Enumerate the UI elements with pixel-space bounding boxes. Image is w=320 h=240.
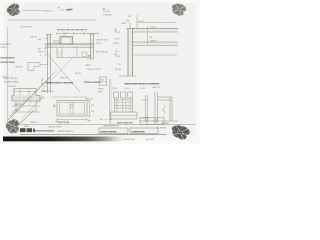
rebar B step lines — [158, 96, 173, 98]
small box right of table — [157, 117, 164, 124]
dimension line central — [57, 32, 98, 34]
rebar A side detail verticals — [145, 95, 147, 122]
scan grain overlay — [4, 3, 196, 136]
under-slab hatch block — [57, 50, 62, 58]
wall top cap — [127, 28, 135, 30]
under-slab vertical a — [56, 47, 58, 57]
curb block inner verticals — [69, 103, 71, 115]
right wall hatch — [90, 35, 93, 57]
pavement slab top line — [45, 43, 94, 45]
slab band 2 hatch — [133, 42, 178, 45]
butterfly top-right — [168, 0, 189, 19]
slab band 1 bottom line — [133, 31, 178, 33]
boxed label 1 — [99, 128, 128, 134]
rebar B bottom line — [153, 120, 178, 122]
left footing inner verticals — [15, 101, 17, 112]
level triangle marks — [88, 55, 90, 57]
top leader line — [22, 9, 44, 11]
title bracket — [41, 79, 43, 85]
curb block inner — [62, 38, 72, 44]
vertical dimension between slabs — [147, 26, 149, 45]
ground diagonal 5 — [10, 96, 30, 116]
butterfly bottom-right — [167, 120, 193, 143]
pavement slab bottom line — [45, 46, 94, 48]
retaining wall hatch — [128, 29, 133, 77]
rebar A hook 2 — [121, 92, 126, 98]
rebar A cage horizontals — [115, 99, 133, 101]
left footing lower line 1 — [12, 105, 40, 107]
rebar A side detail horizontals — [141, 99, 148, 101]
retaining wall vertical pair — [127, 29, 129, 77]
curb block plan view outer — [57, 101, 87, 117]
left footing sparse lower hatch — [16, 102, 20, 107]
rebar A footing rect — [111, 112, 138, 119]
wall footing bottom line — [119, 75, 136, 77]
ground diagonal 4 bottom — [10, 110, 34, 133]
paper background — [0, 0, 200, 144]
stamp underline dash — [34, 130, 54, 132]
svg-text:wnmr nw: wnmr nw — [124, 137, 135, 141]
bottom scan bar — [3, 137, 125, 142]
rebar A cage extra verticals — [122, 98, 124, 112]
rebar B right vertical pair — [169, 97, 171, 121]
under-slab vertical b — [61, 47, 63, 57]
left wall hatch — [47, 35, 50, 48]
third faint slab line — [133, 54, 177, 56]
step element mid-left — [28, 63, 40, 71]
curb block plan inner rect — [60, 103, 85, 115]
top-right vertical tick — [136, 15, 138, 29]
slab band 1 hatch — [133, 29, 178, 32]
top horizontal line — [8, 19, 96, 21]
left wall side ticks — [44, 38, 47, 40]
pavement slab hatch — [45, 44, 94, 47]
left footing outline — [12, 89, 40, 102]
left footing lower line 2 — [12, 111, 40, 113]
curb block small circle — [70, 104, 73, 107]
ground diagonal 6 — [22, 96, 44, 118]
ground diagonal down-right — [44, 50, 80, 92]
rebar A hook 1 — [114, 92, 119, 98]
butterfly top-left — [4, 1, 23, 19]
wall top small flag — [129, 22, 131, 29]
mid title small dashes — [100, 119, 112, 121]
panel divider vertical pair — [109, 79, 111, 125]
ground diagonal 2 — [20, 70, 57, 108]
left wall top cap — [46, 34, 52, 36]
left frame vertical — [7, 27, 9, 122]
leader tick right — [87, 31, 89, 34]
title strip top rule — [7, 124, 196, 126]
slab band 1 top line — [133, 28, 178, 30]
ground diagonal 3 — [42, 56, 74, 90]
curb block left triangle mark — [54, 105, 57, 108]
top right horizontal line — [137, 22, 176, 24]
left wall vertical pair — [46, 35, 48, 94]
rebar A hook 3 — [128, 92, 133, 98]
leader tick above curb — [63, 31, 65, 36]
curb block outer — [60, 36, 73, 44]
right wall top tick — [89, 33, 95, 35]
left footing inner marks — [14, 91, 36, 93]
curb right dim line — [89, 101, 91, 117]
dim ticks — [56, 32, 58, 35]
ground diagonal 1 — [8, 77, 50, 120]
svg-text:mn wnr: mn wnr — [146, 137, 155, 141]
slab band 2 bottom line — [133, 44, 178, 46]
curb block gl line — [52, 96, 87, 98]
curb left marks — [53, 40, 60, 42]
small level box — [82, 52, 87, 57]
small table mid-right — [140, 117, 155, 124]
rebar A cage verticals — [114, 98, 116, 112]
rebar A footing inner line — [111, 115, 138, 117]
rebar B squiggle — [163, 105, 165, 114]
title strip bottom rule — [20, 134, 166, 136]
slab band 2 top line — [133, 41, 178, 43]
curb bottom dim line — [57, 119, 87, 121]
butterfly bottom-left — [4, 117, 22, 135]
bold stamp — [20, 128, 26, 132]
left footing hatch band — [12, 96, 40, 102]
under-slab horizontal — [57, 57, 91, 59]
rebar B vertical pair — [154, 92, 156, 121]
pencil smudge top — [66, 8, 73, 10]
sub-wall vertical — [76, 47, 78, 57]
boxed label 2 — [130, 128, 158, 134]
step connector — [40, 64, 47, 66]
panel corner box — [100, 77, 107, 86]
right wall pair — [89, 34, 91, 58]
